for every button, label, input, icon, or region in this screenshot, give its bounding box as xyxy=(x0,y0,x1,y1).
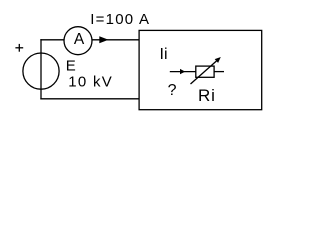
plus polarity sign xyxy=(15,44,23,52)
resistor Ri body xyxy=(196,66,214,77)
wire left vertical (through source) xyxy=(40,39,42,99)
svg-text:10 kV: 10 kV xyxy=(68,74,113,91)
resistor right lead xyxy=(214,71,224,73)
wire top-right horizontal (ammeter to box) xyxy=(92,39,138,41)
ammeter U1 circle xyxy=(64,27,92,55)
arrowhead on top wire xyxy=(99,36,108,43)
svg-text:E: E xyxy=(66,58,76,75)
svg-text:I=100 A: I=100 A xyxy=(90,11,150,28)
voltage source E circle xyxy=(23,53,59,89)
diagonal arrowhead xyxy=(215,57,221,63)
wire top-left horizontal xyxy=(40,39,64,41)
svg-text:?: ? xyxy=(168,82,177,99)
svg-text:A: A xyxy=(74,31,85,48)
variable-resistor diagonal arrow xyxy=(191,61,218,85)
device box xyxy=(139,30,262,109)
current arrow wire into Ri xyxy=(170,71,196,73)
svg-text:Ri: Ri xyxy=(198,86,216,105)
current arrowhead xyxy=(180,69,185,74)
wire bottom horizontal xyxy=(40,98,139,100)
svg-text:Ii: Ii xyxy=(160,46,168,63)
